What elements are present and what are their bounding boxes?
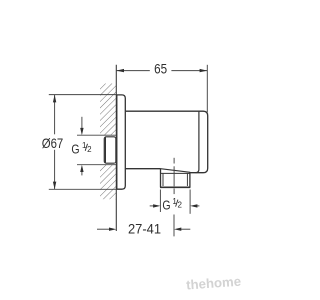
outlet centerline (dashed) bbox=[173, 158, 175, 194]
svg-text:G: G bbox=[162, 198, 170, 212]
diameter 67 bottom extension line bbox=[49, 188, 117, 190]
dimension 27-41 bbox=[97, 222, 190, 237]
body bottom edge left segment bbox=[125, 168, 160, 170]
65 right extension line bbox=[206, 65, 208, 113]
wall hatching upper bbox=[100, 84, 116, 136]
G 1/2 lower dimension extension lines bbox=[159, 190, 161, 213]
flange (escutcheon) bbox=[117, 95, 126, 189]
outlet nipple bbox=[160, 169, 190, 188]
27-41 right extension line bbox=[173, 215, 175, 237]
gap extension line top (G1/2 upper) bbox=[77, 134, 116, 136]
dimension 65 bbox=[116, 62, 207, 77]
gap extension line bottom (G1/2 upper) bbox=[77, 164, 116, 166]
G 1/2 upper dimension arrows bbox=[80, 117, 83, 176]
outlet elbow hood bbox=[161, 169, 191, 173]
G 1/2 lower dimension arrows bbox=[150, 204, 200, 207]
G 1/2 lower label bbox=[162, 197, 182, 213]
watermark thehome bbox=[186, 274, 243, 294]
diameter 67 top extension line bbox=[49, 94, 117, 96]
svg-text:G: G bbox=[71, 143, 79, 157]
G 1/2 upper label bbox=[71, 141, 92, 157]
body (cylinder) bbox=[125, 111, 207, 173]
wall hatching lower bbox=[100, 165, 116, 199]
wall surface line / extension line bbox=[115, 65, 117, 231]
svg-text:27-41: 27-41 bbox=[128, 222, 161, 237]
dimension diameter 67 bbox=[42, 95, 64, 190]
svg-text:65: 65 bbox=[154, 62, 167, 77]
G 1/2 inlet socket behind wall bbox=[104, 137, 116, 163]
svg-text:Ø67: Ø67 bbox=[42, 136, 64, 151]
svg-text:2: 2 bbox=[87, 145, 92, 154]
svg-text:2: 2 bbox=[178, 201, 183, 210]
end-cap line bbox=[196, 112, 199, 173]
